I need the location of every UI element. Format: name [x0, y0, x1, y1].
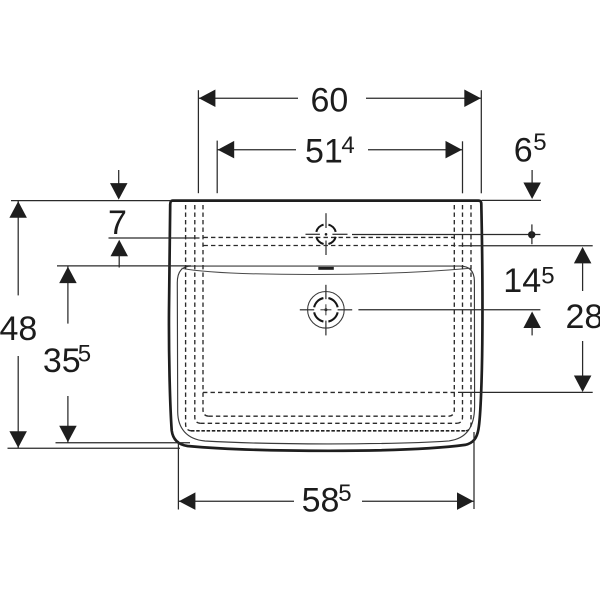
dim 35.5: dimension line	[67, 266, 69, 323]
drain inner circle	[314, 298, 337, 321]
dim 51.4: dimension line	[217, 149, 296, 151]
svg-text:60: 60	[311, 82, 349, 120]
svg-text:58: 58	[302, 482, 340, 520]
dim 48: arrows	[9, 201, 27, 218]
hidden contour: basin floor front dashed line	[203, 391, 458, 393]
basin interior back dip curve	[182, 268, 471, 274]
drain crosshair ticks	[325, 285, 327, 299]
dim 51.4: extension lines	[216, 141, 218, 194]
washbasin outer outline	[169, 201, 483, 451]
dim 7: top arrow	[118, 170, 120, 185]
dim 60: extension lines	[197, 90, 199, 193]
hidden contour: bottom dashed lines	[208, 415, 449, 417]
hidden contour: rear deck dashed lines	[204, 236, 455, 238]
faucet hole center dot	[325, 233, 328, 236]
ref line: 7 deck line	[109, 237, 200, 239]
svg-text:5: 5	[541, 263, 554, 290]
svg-text:35: 35	[43, 342, 81, 380]
svg-text:5: 5	[78, 341, 91, 368]
dim 28: top arrow	[574, 247, 592, 264]
svg-text:48: 48	[0, 310, 37, 348]
hidden contour: left dashed verticals	[186, 205, 191, 431]
dim 58.5: extension lines	[177, 441, 179, 510]
hidden contour: dense dashed bottom line	[191, 430, 466, 432]
svg-text:5: 5	[533, 129, 546, 156]
svg-text:14: 14	[503, 262, 541, 300]
svg-text:51: 51	[305, 132, 343, 170]
ref line: drain centre line	[358, 309, 540, 311]
drain outer circle	[308, 292, 345, 329]
svg-text:4: 4	[341, 132, 354, 159]
svg-text:7: 7	[108, 204, 127, 242]
svg-text:5: 5	[338, 480, 351, 507]
dim 58.5: arrows	[179, 492, 196, 510]
svg-text:6: 6	[514, 132, 533, 170]
ref line: 28 bottom line	[458, 391, 593, 393]
ref line: basin top extension left	[57, 265, 191, 267]
inner basin outline	[177, 266, 474, 444]
dim 51.4: arrows	[218, 141, 235, 159]
dim 7: bottom arrow	[111, 240, 129, 256]
dim 14.5: bottom arrow	[523, 312, 541, 329]
faucet hole circle	[316, 225, 335, 244]
ref line: outer bottom extension left (48)	[8, 447, 181, 449]
ref line: faucet centre line to dot	[352, 234, 540, 236]
svg-text:28: 28	[566, 298, 600, 336]
dim 60: arrows	[199, 90, 216, 108]
faucet hole crosshair ticks	[325, 213, 327, 228]
ref line: top edge extension left	[11, 200, 170, 202]
ref line: top edge extension right	[482, 199, 542, 201]
dim 35.5: arrows	[59, 267, 76, 284]
overflow slot dash	[318, 267, 334, 270]
dim 60: dimension line	[198, 97, 298, 99]
ref line: 28 top line	[459, 245, 593, 247]
dim 58.5: dimension line	[178, 500, 294, 502]
drain center mark	[324, 308, 327, 311]
dim 14.5: dot marker	[528, 231, 535, 238]
hidden contour: right dashed verticals	[466, 205, 471, 431]
dim 28: bottom arrow	[582, 341, 584, 376]
ref line: basin bottom extension left (35.5)	[56, 442, 191, 444]
dim 6.5: arrow and tail	[531, 170, 533, 184]
dim 48: dimension line	[17, 201, 19, 296]
